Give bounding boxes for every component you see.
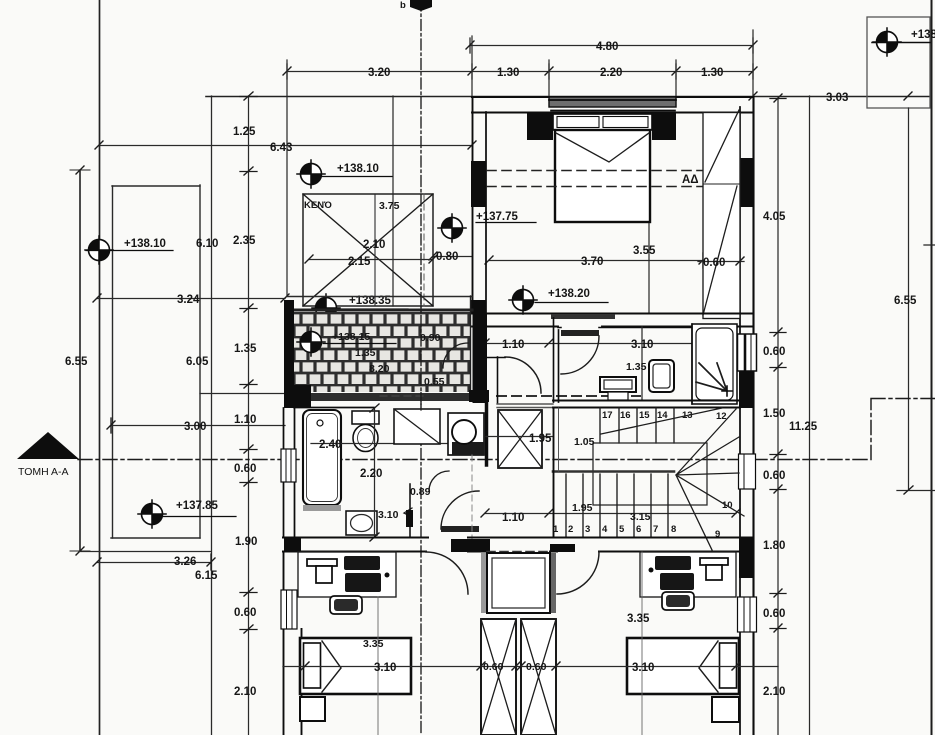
node hall door 0.89 (441, 491, 479, 529)
node pier west bedroom2 (284, 537, 301, 552)
node pier west bath (284, 385, 311, 408)
svg-text:0.60: 0.60 (763, 346, 785, 358)
node level marker +138.10 b (297, 160, 325, 188)
node west window bath (0.60) (281, 449, 296, 482)
node wall stub x=410 (409, 484, 411, 537)
wire dim vertical x=80 (6.55 left) (79, 170, 81, 551)
wire dashed hidden lines (380, 395, 424, 397)
node bathtub (303, 410, 341, 505)
wire dim 6.55 right x=908 (908, 108, 910, 490)
svg-text:11.25: 11.25 (789, 421, 818, 433)
node washbasin bath1 (346, 511, 377, 535)
wire right border x=931 (931, 0, 933, 735)
svg-text:4: 4 (602, 524, 608, 535)
svg-text:3.00: 3.00 (184, 421, 206, 433)
node WC door arc (429, 471, 449, 491)
node toilet bath1 (352, 411, 379, 424)
node ensuite toilet (649, 360, 674, 392)
svg-text:3.35: 3.35 (627, 613, 650, 625)
node landing edge (553, 470, 674, 473)
svg-text:2.35: 2.35 (233, 235, 256, 247)
node void KENO box (303, 194, 433, 306)
wire dim 3.20/1.30/2.20/1.30 (287, 71, 753, 73)
node bedroom1 east wall full height (739, 107, 741, 735)
node east window 2 (739, 454, 756, 489)
wire hidden line over shaft (487, 551, 550, 553)
wire boundary vertical x=99 (99, 0, 101, 735)
wire dim 3.26 / 6.15 (97, 562, 211, 564)
svg-text:1.10: 1.10 (502, 339, 524, 351)
svg-text:1.95: 1.95 (572, 502, 593, 514)
svg-text:0.60: 0.60 (234, 463, 256, 475)
wire dim 11.25 x=809 (809, 96, 811, 735)
svg-text:1.35: 1.35 (626, 361, 647, 373)
node level marker 0.80 (438, 214, 466, 242)
node west window bedroom2 (0.60) (281, 590, 297, 629)
node ensuite west wall (554, 318, 559, 402)
svg-text:2.10: 2.10 (363, 239, 385, 251)
svg-text:3.55: 3.55 (633, 245, 656, 257)
wire witness x=378 bottom (377, 597, 379, 735)
node light well left (481, 619, 516, 735)
node shower ensuite (692, 324, 737, 404)
node bedroom2 west wall (284, 552, 302, 735)
wire line y=551 (79, 551, 211, 553)
svg-text:2: 2 (568, 524, 573, 535)
node tile door arc (443, 343, 468, 368)
svg-text:+138.10: +138.10 (337, 163, 379, 175)
node neighbor outline rectangle (112, 186, 114, 538)
svg-text:KENΌ: KENΌ (304, 200, 332, 211)
node divider toilet/shower (691, 324, 693, 404)
wire section line B over tiles (420, 296, 422, 410)
node stair upper flight treads (600, 408, 674, 443)
wire section line A-A dash-dot (78, 399, 935, 460)
node west wall lower segments (284, 408, 295, 537)
node bedroom1 north wall (472, 96, 753, 98)
node pier right of shaft (550, 544, 575, 552)
node ensuite washbasin (600, 377, 636, 392)
svg-text:16: 16 (620, 410, 631, 421)
wire right dim chain x=778 (777, 98, 779, 735)
svg-text:3: 3 (585, 524, 590, 535)
wire dim 2.20 vertical (374, 408, 376, 537)
node bed bedroom2 (300, 638, 411, 694)
node east wall pier 3 (739, 538, 754, 578)
svg-text:1.35: 1.35 (234, 343, 257, 355)
svg-text:6.43: 6.43 (270, 142, 292, 154)
wire dim 2.15 (309, 259, 433, 261)
node pier right of bed (652, 112, 676, 140)
node WC basin (448, 413, 484, 455)
svg-text:1.95: 1.95 (529, 433, 552, 445)
node X shaft small (498, 410, 542, 468)
wire top boundary y=96 (206, 96, 931, 98)
svg-text:15: 15 (639, 410, 650, 421)
node desk bedroom3 (640, 552, 736, 597)
node bedroom1 west wall (472, 97, 474, 313)
svg-text:1.10: 1.10 (502, 512, 524, 524)
svg-text:1.90: 1.90 (235, 536, 257, 548)
svg-text:2.20: 2.20 (360, 468, 382, 480)
wire h line y=393 (200, 393, 285, 395)
svg-text:3.03: 3.03 (826, 92, 848, 104)
node bedroom1 south wall (472, 313, 753, 315)
wire dim 6.43 y=145 (99, 145, 472, 147)
svg-text:2.40: 2.40 (319, 439, 341, 451)
node wall band below tiles (311, 393, 470, 401)
node top-right box (867, 17, 930, 108)
svg-text:1.25: 1.25 (233, 126, 256, 138)
svg-text:3.15: 3.15 (630, 511, 651, 523)
svg-text:6.55: 6.55 (894, 295, 917, 307)
svg-text:3.26: 3.26 (174, 556, 196, 568)
wire dim 0.80 (433, 256, 472, 258)
node shower tray square (394, 409, 440, 444)
svg-text:0.60: 0.60 (703, 257, 725, 269)
svg-text:6.05: 6.05 (186, 356, 209, 368)
node level marker +138.20 (509, 286, 537, 314)
svg-text:0.60: 0.60 (763, 608, 785, 620)
wire dim 3.70 y=260 (489, 260, 703, 262)
wire boundary vertical x=211 (211, 96, 213, 735)
svg-text:+138.8: +138.8 (911, 29, 935, 41)
svg-text:0.60: 0.60 (526, 661, 547, 673)
node stair west wall (553, 408, 555, 537)
svg-text:6.55: 6.55 (65, 356, 88, 368)
svg-text:3.10: 3.10 (632, 662, 654, 674)
node level marker in box +138 (873, 28, 901, 56)
node double bed (555, 130, 650, 222)
node desk bedroom2 (298, 552, 396, 597)
wire witness x=642 bottom (641, 552, 643, 735)
svg-text:0.90: 0.90 (420, 332, 441, 344)
svg-text:1.10: 1.10 (234, 414, 256, 426)
svg-text:TOMH A-A: TOMH A-A (18, 466, 69, 478)
svg-text:8: 8 (671, 524, 676, 535)
wire dim 3.55 vertical x=649 (648, 222, 650, 313)
wire section line B vertical x=421 dash-dot (420, 0, 422, 735)
svg-text:4.80: 4.80 (596, 41, 618, 53)
node bedroom3 door arc (557, 552, 599, 594)
svg-text:+138.20: +138.20 (548, 288, 590, 300)
node headboard shelf (553, 114, 652, 130)
node bedroom2 door arc (426, 552, 468, 594)
svg-text:1.80: 1.80 (763, 540, 785, 552)
wire dim 3.00 (111, 425, 285, 427)
node central shaft (481, 553, 487, 613)
svg-text:3.20: 3.20 (368, 67, 390, 79)
node shelf over wall (551, 314, 615, 319)
wire witness verticals above wall (286, 60, 288, 296)
svg-text:0.60: 0.60 (483, 661, 504, 673)
svg-text:3.75: 3.75 (379, 200, 400, 212)
node hall corridor door (505, 357, 541, 393)
wire dim y=513 (1.10 / 3.15) (485, 513, 736, 515)
wire dim 4.80 (470, 45, 753, 47)
node stair lower flight treads (566, 474, 668, 537)
node east window 1 (0.60) (738, 334, 757, 371)
svg-text:b: b (400, 0, 406, 11)
wire dim 2.40 (311, 443, 450, 445)
svg-text:+137.75: +137.75 (476, 211, 518, 223)
wire dim y=343 (1.10 / 3.10) (485, 343, 736, 345)
node section triangle TOMH A-A (17, 432, 79, 459)
svg-text:4.05: 4.05 (763, 211, 786, 223)
svg-text:2.10: 2.10 (763, 686, 785, 698)
svg-text:0.55: 0.55 (424, 376, 445, 388)
node pier center (451, 539, 490, 552)
svg-text:5: 5 (619, 524, 625, 535)
wire dim 1.35 ensuite (641, 327, 643, 400)
node level marker +138.35 (312, 294, 340, 322)
wire dim bottom y=666 overlay (283, 666, 778, 668)
svg-text:17: 17 (602, 410, 613, 421)
svg-text:3.70: 3.70 (581, 256, 603, 268)
node chair bedroom3 (662, 592, 694, 610)
svg-text:2.20: 2.20 (600, 67, 622, 79)
node east wall pier 1 (739, 158, 754, 207)
svg-text:+137.85: +137.85 (176, 500, 218, 512)
node wardrobe east (703, 113, 740, 319)
node section marker B top (410, 0, 432, 11)
svg-text:3.10: 3.10 (374, 662, 396, 674)
wire dashed beam AD (487, 170, 737, 172)
svg-text:8.20: 8.20 (369, 363, 390, 375)
node bed bedroom3 (627, 638, 739, 694)
node level marker +137.85 (138, 500, 166, 528)
node pier left of bed (527, 112, 553, 140)
wire dim 0.60 wardrobe (698, 261, 744, 263)
svg-text:1.50: 1.50 (763, 408, 785, 420)
node wing west wall black (284, 300, 294, 390)
svg-text:+138.10: +138.10 (124, 238, 166, 250)
svg-text:2.10: 2.10 (234, 686, 256, 698)
node light well right (521, 619, 556, 735)
wire dim 3.24 (97, 298, 285, 300)
svg-text:1.30: 1.30 (701, 67, 723, 79)
svg-text:+138.15: +138.15 (332, 331, 370, 343)
svg-text:1.35: 1.35 (355, 347, 376, 359)
svg-text:0.80: 0.80 (436, 251, 458, 263)
node ensuite door leaf and arc (561, 330, 599, 336)
svg-text:0.60: 0.60 (763, 470, 785, 482)
node chair bedroom2 (330, 596, 362, 614)
node winder fan (676, 409, 744, 550)
svg-text:7: 7 (653, 524, 658, 535)
svg-text:1.05: 1.05 (574, 436, 595, 448)
node west wall black column hall (473, 313, 488, 403)
node east window 3 (0.60) (738, 597, 757, 632)
node level marker +138.10 a (85, 236, 113, 264)
node east wall pier 2 (739, 368, 754, 408)
svg-text:AΔ: AΔ (682, 174, 699, 186)
svg-text:0.60: 0.60 (234, 607, 256, 619)
node nightstand bedroom2 (300, 697, 325, 721)
svg-text:6: 6 (636, 524, 641, 535)
svg-text:2.15: 2.15 (348, 256, 371, 268)
svg-text:0.89: 0.89 (410, 486, 431, 498)
node heavy wall line x=486 (485, 402, 489, 465)
svg-text:3.10: 3.10 (378, 509, 399, 521)
node wing top wall (287, 296, 472, 298)
node stair top wall (553, 400, 740, 402)
node tiled floor strip (294, 312, 470, 392)
svg-text:6.10: 6.10 (196, 238, 218, 250)
wire dim 1.95 (486, 436, 553, 438)
svg-text:3.35: 3.35 (363, 638, 384, 650)
node nightstand bedroom3 (712, 697, 739, 722)
label tiles +138.15 (297, 328, 325, 356)
svg-text:3.24: 3.24 (177, 294, 200, 306)
node stairwell void rect (593, 443, 707, 505)
svg-text:1.30: 1.30 (497, 67, 519, 79)
wire left dim chain x=248 (248, 96, 250, 735)
node main wall y537-552 (283, 537, 753, 539)
node ensuite inner face (558, 327, 737, 329)
node window north (2.20) (549, 97, 676, 107)
svg-text:6.15: 6.15 (195, 570, 218, 582)
